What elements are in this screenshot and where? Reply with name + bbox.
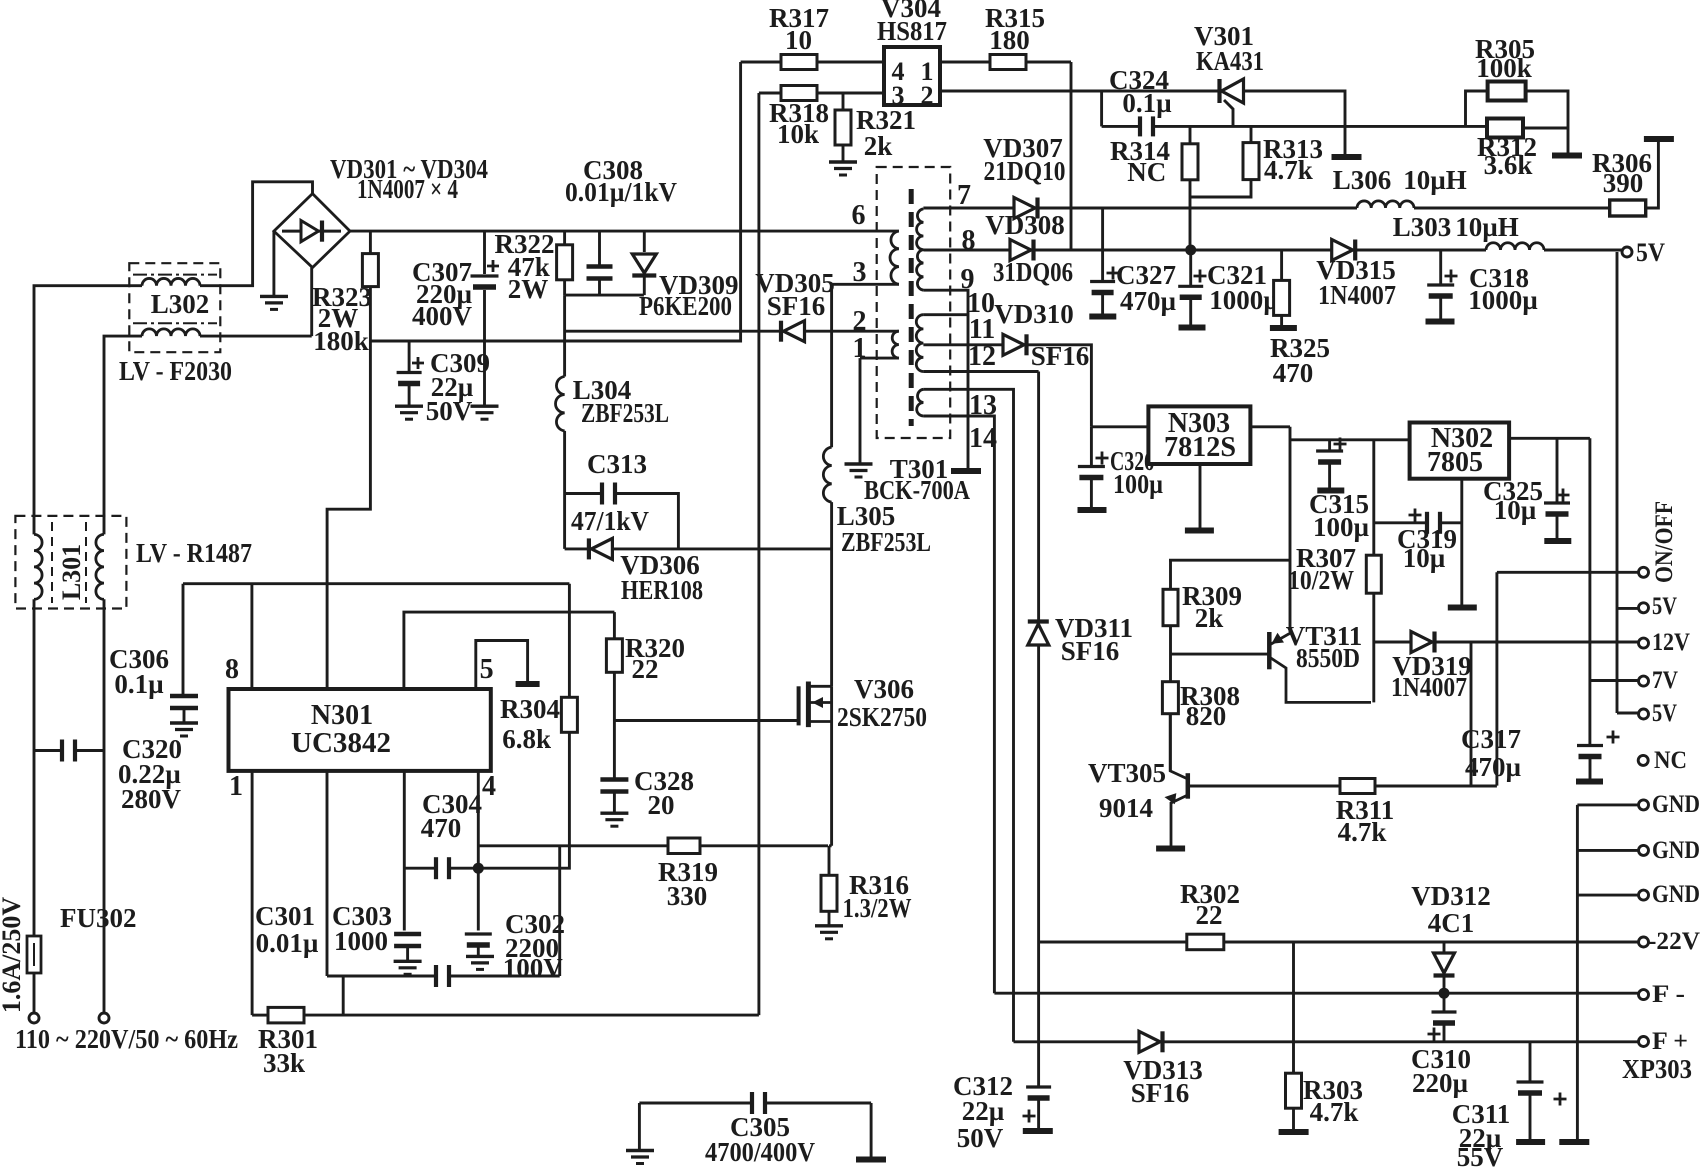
svg-text:0.01µ/1kV: 0.01µ/1kV [565,177,677,207]
resistor R311 [1340,779,1375,794]
svg-text:21DQ10: 21DQ10 [984,156,1066,186]
svg-text:V306: V306 [854,674,914,704]
svg-text:GND: GND [1652,791,1700,818]
wire VD310 to N303 [1026,345,1091,427]
wire -22V line [1039,941,1187,944]
end bar C325 [1544,538,1571,544]
svg-text:3.6k: 3.6k [1484,150,1533,180]
fuse FU302 [27,936,41,973]
end bar C311 [1516,1139,1545,1145]
svg-text:BCK-700A: BCK-700A [864,475,970,505]
wire N303 ground [1199,464,1202,528]
terminal NC [1638,755,1648,765]
wire gate drive [614,719,798,722]
capacitor C318 [1439,250,1442,284]
diode VD305 SF16 [741,330,899,333]
wire N303 out [1250,425,1290,428]
wire pin1 down [251,771,254,1015]
inductor L303 [1486,243,1544,250]
svg-text:7V: 7V [1652,667,1678,694]
svg-text:280V: 280V [121,784,182,814]
svg-text:ON/OFF: ON/OFF [1651,501,1678,583]
svg-text:12V: 12V [1652,629,1690,656]
svg-text:NC: NC [1127,157,1166,187]
resistor R301 [268,1007,304,1023]
capacitor C326 [1090,427,1093,466]
wire AC live from plug to L302 via FU302 and L301 [33,973,36,1013]
svg-text:47/1kV: 47/1kV [571,506,649,536]
resistor R304 [561,697,577,732]
terminal F+ [1639,1037,1649,1047]
svg-text:400V: 400V [412,301,473,331]
diode VD315 1N4007 [1332,240,1353,261]
end bar C315 [1317,488,1344,494]
svg-text:470: 470 [1273,358,1314,388]
svg-text:VT305: VT305 [1088,758,1166,788]
svg-text:7812S: 7812S [1164,432,1236,463]
resistor R309 [1169,559,1290,562]
resistor R322 [563,231,566,245]
svg-text:31DQ06: 31DQ06 [993,257,1073,287]
capacitor C315 [1328,440,1331,451]
end bar VT305 emitter [1156,846,1185,852]
wire R301 to C301 [342,976,345,1015]
svg-text:4.7k: 4.7k [1264,155,1313,185]
inductor L306 [1357,201,1414,208]
ground C306 [170,721,198,724]
IC N301 UC3842 [229,689,491,771]
svg-text:2k: 2k [1195,603,1224,633]
wire FB line y846 [478,844,668,847]
wire R323 to N301 jog [327,341,370,689]
ground T301 pin1 [845,462,873,465]
svg-text:ZBF253L: ZBF253L [581,398,669,428]
wire bottom return [252,1014,268,1017]
plus C317 [1607,731,1620,744]
svg-text:22: 22 [1196,900,1223,930]
inductor L302 line filter [129,263,220,352]
wire F- line [994,992,1638,995]
svg-text:1000: 1000 [334,926,388,956]
svg-text:820: 820 [1186,701,1227,731]
svg-text:33k: 33k [263,1048,305,1078]
diode VD319 1N4007 [1373,641,1411,644]
terminal 5V pin1 [1639,603,1649,613]
wire VD309 box bottom [565,330,741,333]
svg-text:100k: 100k [1476,53,1532,83]
resistor R307 [1366,555,1381,593]
resistor R302 [1187,934,1224,950]
terminal AC plug neutral [99,1013,109,1023]
end bar R306 [1644,136,1674,142]
svg-text:1.6A/250V: 1.6A/250V [0,897,26,1014]
resistor R314 NC [1189,126,1192,143]
svg-text:10k: 10k [777,119,819,149]
resistor R319 [668,838,700,854]
wire VD307/VD308 cathode bus [1070,62,1073,250]
diode VD311 SF16 [1037,372,1040,621]
svg-text:5V: 5V [1652,593,1677,620]
wire R318 feedback vertical [757,93,760,1015]
diode VD310 SF16 [1003,334,1024,355]
capacitor C325 [1556,438,1559,503]
resistor R313 [1250,126,1253,142]
transistor VT311 8550D [1267,632,1272,669]
wire 7V line [1590,679,1639,682]
svg-text:UC3842: UC3842 [291,728,391,759]
IC N302 7805 [1410,423,1510,479]
svg-text:L301: L301 [57,544,86,600]
svg-text:KA431: KA431 [1196,46,1264,76]
wire line A to line B [1100,91,1103,126]
wire pin12 line [923,370,1038,373]
diode VD313 SF16 [1139,1031,1160,1052]
end bar R303 [1279,1129,1309,1135]
svg-text:L302: L302 [151,289,210,319]
capacitor C313 [565,492,601,495]
resistor R321 [842,93,845,110]
svg-text:HER108: HER108 [621,575,703,605]
svg-text:100µ: 100µ [1113,469,1163,499]
svg-text:470µ: 470µ [1120,286,1177,316]
IC N303 7812S [1091,425,1148,428]
resistor R312 [1487,119,1523,138]
ground C307 [471,405,499,408]
svg-text:1: 1 [229,771,243,802]
wire Vcc rail pin8 [183,582,569,585]
inductor L301 common-mode choke [15,516,126,609]
svg-text:N301: N301 [311,700,373,731]
wire pin5 stub [476,641,528,690]
end bar pin2 line [1332,154,1362,160]
wire 12V to N302 line [1290,438,1410,441]
svg-text:180: 180 [989,25,1030,55]
wire R307 feed [1372,440,1375,555]
svg-text:NC: NC [1654,747,1687,774]
svg-text:HS817: HS817 [877,16,947,46]
svg-text:390: 390 [1603,168,1644,198]
terminal -22V [1639,937,1649,947]
svg-text:220µ: 220µ [1412,1068,1469,1098]
svg-text:LV - F2030: LV - F2030 [119,356,232,386]
svg-text:GND: GND [1652,837,1700,864]
wire bridge AC2 to ground [272,231,275,296]
wire snubber left leg with L304 [563,295,566,376]
svg-text:SF16: SF16 [1061,636,1120,666]
capacitor C320 [60,740,64,762]
svg-text:SF16: SF16 [767,291,826,321]
svg-text:1.3/2W: 1.3/2W [843,893,912,923]
capacitor C317 [1577,744,1603,747]
terminal 5V top [1622,247,1632,257]
svg-text:100µ: 100µ [1313,512,1370,542]
capacitor C312 [1026,1085,1051,1088]
shunt regulator V301 KA431 [1217,79,1221,103]
svg-text:5: 5 [480,654,494,685]
svg-text:50V: 50V [426,396,473,426]
wire 12V rect line C [923,207,1014,210]
svg-text:20: 20 [648,790,675,820]
svg-text:XP303: XP303 [1622,1054,1692,1084]
svg-text:330: 330 [667,881,708,911]
end bar C326 [1078,507,1107,513]
svg-text:470µ: 470µ [1465,752,1522,782]
capacitor C303 [394,932,421,937]
transformer secondary winding 13-14 [917,389,924,416]
terminal GND3 [1639,890,1649,900]
resistor R315 [940,61,990,64]
wire rail-341 return [370,331,741,341]
transformer secondary winding 10-11-12 [916,315,923,372]
capacitor C328 [600,777,628,782]
capacitor C304 [404,867,435,870]
wire ON/OFF line [1495,572,1498,785]
capacitor C321 [1189,250,1192,286]
svg-text:2k: 2k [864,131,893,161]
end bar secondary common [951,468,981,474]
svg-text:4.7k: 4.7k [1310,1097,1359,1127]
svg-text:C313: C313 [587,449,647,479]
capacitor C302 [465,932,492,935]
wire 5V pin2 [1617,712,1639,715]
wire C301 right leg [558,846,561,976]
svg-text:7: 7 [957,180,971,211]
svg-text:C301: C301 [255,901,315,931]
svg-text:1N4007: 1N4007 [1318,280,1396,310]
wire pin8 stub [250,584,253,689]
wire 12V tap to R311 [1470,643,1473,786]
svg-text:0.1µ: 0.1µ [1122,88,1172,118]
wire GND bus [1576,805,1579,1139]
end bar N302 gnd [1448,605,1477,611]
wire R317 feedback vertical [739,62,742,331]
svg-text:9014: 9014 [1099,793,1153,823]
terminal AC plug live [29,1013,39,1023]
resistor R320 [613,612,616,639]
transistor V306 2SK2750 [797,686,801,725]
diode VD306 HER108 [565,547,832,550]
end bar R325 [1270,325,1297,331]
wire N302 out [1509,437,1590,440]
wire R322 bottom node [565,294,644,297]
svg-text:P6KE200: P6KE200 [639,291,732,321]
wire 5V pin1 [1617,607,1639,610]
terminal F- [1639,990,1649,1000]
svg-text:8550D: 8550D [1296,643,1360,673]
transformer secondary winding 7-8-9 [917,209,924,290]
end bar N303 gnd [1185,528,1214,534]
wire GND3 [1577,894,1638,897]
wire pin13 line [923,389,1013,1042]
wire pin4 down [477,771,480,931]
terminal 5V pin2 [1639,709,1649,719]
wire GND1 [1577,803,1638,806]
inductor L305 [823,447,831,502]
terminal GND1 [1639,800,1649,810]
svg-text:22: 22 [632,654,659,684]
end bar R305 branch [1552,153,1582,159]
svg-text:LV - R1487: LV - R1487 [136,538,252,568]
wire main HV rail +310V [350,230,899,233]
end bar C318 [1426,319,1455,325]
resistor R308 [1162,682,1178,714]
optocoupler V304 HS817 [884,47,940,105]
svg-text:L306: L306 [1333,165,1392,195]
svg-text:5V: 5V [1652,700,1677,727]
svg-text:4C1: 4C1 [1428,908,1475,938]
svg-text:1N4007 × 4: 1N4007 × 4 [357,174,458,204]
svg-text:55V: 55V [1457,1142,1504,1167]
end bar C312 [1023,1128,1053,1134]
transformer core [909,189,914,426]
ground R316 [815,924,843,927]
ground C305 left [626,1149,654,1152]
inductor L304 [556,377,565,431]
bridge rectifier VD301-VD304 [274,194,350,268]
wire N301 pin to R320 [404,612,615,689]
svg-text:4.7k: 4.7k [1338,817,1387,847]
svg-text:F +: F + [1652,1028,1688,1055]
junction R314/C321 [1185,245,1196,256]
svg-text:VD308: VD308 [985,210,1065,240]
svg-text:0.01µ: 0.01µ [256,928,319,958]
end bar GND bus [1559,1139,1589,1145]
ground bridge [260,295,288,298]
svg-text:10µ: 10µ [1403,543,1446,573]
svg-text:100V: 100V [503,953,564,983]
wire L305 branch [830,284,833,447]
resistor R305 [1466,91,1488,126]
wire pin3 [832,283,899,286]
svg-text:10µ: 10µ [1494,495,1537,525]
diode VD312 4C1 [1443,942,1446,953]
wire 5V drop [1616,252,1619,713]
svg-text:110 ~ 220V/50 ~ 60Hz: 110 ~ 220V/50 ~ 60Hz [15,1024,238,1054]
capacitor C301 [327,975,435,978]
svg-text:GND: GND [1652,881,1700,908]
wire GND2 [1577,849,1638,852]
svg-text:10: 10 [785,25,812,55]
svg-text:4: 4 [482,771,496,802]
svg-text:470: 470 [421,813,462,843]
wire rail corner through R304 [568,584,571,698]
end bar C327 [1089,314,1116,320]
resistor R317 [741,61,781,64]
svg-text:10/2W: 10/2W [1288,565,1354,595]
svg-text:L303: L303 [1393,212,1452,242]
junction pin4/C304 [473,863,484,874]
end bar C317 [1576,779,1603,785]
svg-text:4700/400V: 4700/400V [705,1137,815,1167]
capacitor C305 [639,1102,751,1105]
resistor R318 [759,92,781,95]
svg-text:2SK2750: 2SK2750 [837,702,927,732]
svg-text:1000µ: 1000µ [1468,285,1538,315]
wire VD307/8 tie [1101,208,1104,281]
diode VD309 P6KE200 [643,231,646,252]
transformer primary winding 2-1 [892,331,899,358]
end bar C321 [1179,325,1206,331]
svg-text:-22V: -22V [1648,928,1700,955]
svg-text:0.1µ: 0.1µ [114,669,164,699]
wire L302 to bridge top [200,182,313,286]
capacitor C319 [1374,521,1426,524]
capacitor C324 [1102,125,1139,128]
svg-text:2: 2 [921,81,934,110]
terminal 12V [1639,638,1649,648]
wire N302 ground [1460,479,1463,605]
resistor R306 [1610,200,1646,216]
wire 8 line [923,249,1010,252]
svg-text:3: 3 [853,257,867,288]
svg-text:10µH: 10µH [1403,165,1467,195]
wire pin1 to ground [860,357,899,360]
wire pin3 down [403,771,406,931]
wire pin11 [923,343,1003,346]
wire AC neutral from plug to L302 [103,599,106,1013]
svg-text:22µ: 22µ [962,1096,1005,1126]
ground R321 [829,160,857,163]
resistor R323 [369,231,372,254]
svg-text:2W: 2W [508,274,549,304]
diode VD308 31DQ06 [1010,240,1031,261]
transformer primary winding 6-3 [890,231,899,284]
transistor VT305 9014 [1170,714,1188,779]
wire F+ line [1014,1040,1140,1043]
capacitor C311 [1529,1042,1532,1082]
capacitor C308 [598,231,601,264]
wire pin14 line [923,416,994,993]
svg-text:R304: R304 [500,694,560,724]
resistor R325 [1280,250,1283,280]
svg-text:6.8k: 6.8k [502,724,551,754]
svg-text:14: 14 [969,423,997,454]
terminal ON/OFF [1639,567,1649,577]
svg-text:SF16: SF16 [1131,1078,1190,1108]
ground C302 [466,955,494,958]
svg-text:F -: F - [1652,981,1685,1008]
wire V304 pin2 line [940,90,1218,93]
resistor R316 [828,846,831,876]
svg-text:7805: 7805 [1427,447,1483,478]
capacitor C306 [182,584,185,694]
svg-text:180k: 180k [313,326,369,356]
terminal GND2 [1639,845,1649,855]
ground C303 [394,960,422,963]
ground C328 [600,812,628,815]
transformer T301 box [877,167,951,438]
svg-text:VD312: VD312 [1411,881,1491,911]
svg-text:6: 6 [852,200,866,231]
svg-text:VD310: VD310 [994,299,1074,329]
svg-text:8: 8 [225,654,239,685]
resistor R303 [1292,942,1295,1073]
svg-text:50V: 50V [957,1123,1004,1153]
end bar pin5 [516,681,540,687]
junction VD312/C310 [1439,988,1450,999]
wire L302 to bridge bottom [200,335,312,338]
capacitor C309 [408,341,411,371]
svg-text:5V: 5V [1636,238,1665,267]
capacitor C307 [483,231,486,274]
svg-text:FU302: FU302 [60,903,137,933]
capacitor C327 [1090,280,1115,283]
svg-text:1000µ: 1000µ [1209,285,1279,315]
capacitor C310 [1443,993,1446,1012]
ground C309 [395,405,423,408]
wire pin9-10 common [923,290,968,469]
svg-text:10µH: 10µH [1455,212,1519,242]
